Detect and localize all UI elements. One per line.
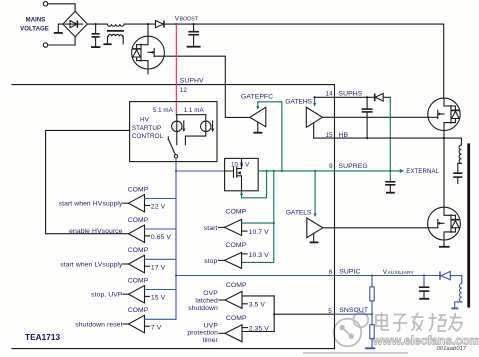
svg-text:BOOST: BOOST [180, 17, 199, 23]
wire diode to SUPREG node (teal) [389, 97, 391, 171]
svg-text:COMP: COMP [226, 282, 247, 289]
svg-text:22 V: 22 V [151, 204, 166, 211]
wire I2 bypass to switch output [185, 132, 205, 145]
watermark CJK glyph 5 [449, 313, 463, 331]
wire SUPREG feed to GATELS (teal) [314, 171, 316, 215]
svg-text:5.1 mA: 5.1 mA [153, 107, 174, 114]
svg-text:COMP: COMP [128, 307, 149, 314]
wire SUPREG sense to start/stop comps (teal) [242, 171, 274, 263]
wire primary to resonant cap [458, 163, 462, 172]
inductor transformer auxiliary winding [459, 276, 461, 302]
HV startup control box [130, 102, 217, 162]
IC boundary bottom edge [12, 348, 335, 350]
svg-text:SUPHS: SUPHS [339, 90, 363, 97]
wire SUPREG feed to GATEPFC (teal) [258, 102, 282, 171]
svg-text:start when HVsupply: start when HVsupply [59, 201, 123, 208]
wire Q2 source to HB [443, 130, 445, 138]
wire SUPREG internal rail [258, 170, 334, 172]
svg-text:17 V: 17 V [151, 264, 166, 271]
wire Q3 source to ground [443, 240, 445, 246]
transistor Q1 PFC MOSFET [132, 24, 165, 74]
wire SUPIC internal (blue) [176, 275, 335, 277]
svg-text:AUXILIARY: AUXILIARY [388, 270, 415, 276]
wire choke right leg stub [122, 36, 125, 44]
svg-text:COMP: COMP [226, 209, 247, 216]
node SUPREG-GATEPFC [281, 170, 283, 172]
wire HB [314, 137, 462, 139]
svg-text:COMP: COMP [128, 247, 149, 254]
svg-text:shutdown reset: shutdown reset [75, 321, 122, 328]
bridge rectifier [63, 11, 87, 36]
svg-text:timer: timer [202, 337, 218, 344]
resistor R1 [371, 276, 373, 287]
node R1 top [371, 274, 373, 276]
ground aux cap [419, 298, 429, 300]
svg-text:HV: HV [140, 117, 150, 124]
svg-text:12: 12 [180, 87, 188, 94]
ground SUPREG cap [386, 192, 395, 194]
ground choke [103, 43, 111, 45]
wire SUPHS feed to GATEHS (teal) [314, 97, 316, 104]
node boost cap tap [193, 23, 195, 25]
svg-text:OVP: OVP [203, 290, 218, 297]
svg-text:EXTERNAL: EXTERNAL [406, 168, 439, 175]
svg-text:GATELS: GATELS [286, 210, 312, 217]
wire HB to Q3 drain [443, 138, 445, 207]
diode aux rectifier [439, 271, 441, 279]
mains terminal top [43, 2, 47, 6]
wire I1 contact stub [176, 132, 178, 145]
svg-text:start when LVsupply: start when LVsupply [60, 261, 123, 268]
svg-text:MAINS: MAINS [26, 18, 46, 24]
svg-text:GATEPFC: GATEPFC [241, 93, 273, 100]
capacitor boost [193, 24, 195, 31]
svg-text:COMP: COMP [226, 242, 247, 249]
wire GATEHS return to HB [313, 123, 315, 139]
watermark CJK glyph 3 [412, 313, 424, 331]
inductor transformer primary [459, 145, 461, 163]
wire rail to 10.9V regulator [176, 170, 225, 172]
node rail to regulator [175, 170, 177, 172]
ground GATELS [313, 233, 315, 241]
wire rail to HS drain [164, 24, 443, 98]
svg-text:2.35 V: 2.35 V [249, 325, 270, 332]
wire choke left leg to ground [107, 36, 110, 43]
svg-text:0.65 V: 0.65 V [151, 234, 172, 241]
ground bridge [54, 32, 63, 34]
mains terminal bottom [43, 43, 47, 47]
resistor R2 [371, 314, 373, 325]
capacitor bootstrap [366, 97, 368, 108]
wire aux winding return [455, 302, 462, 308]
transistor Q2 half-bridge high side [428, 98, 460, 130]
watermark elecfans logo [334, 312, 368, 346]
wire terminal bottom to bridge [48, 37, 75, 45]
svg-text:9: 9 [329, 163, 333, 170]
svg-text:VOLTAGE: VOLTAGE [20, 27, 49, 33]
IC TEA1713 boundary top edge [12, 84, 335, 86]
svg-text:SUPHV: SUPHV [180, 77, 204, 84]
svg-text:7 V: 7 V [151, 324, 162, 331]
svg-text:start: start [204, 225, 218, 232]
svg-text:SUPREG: SUPREG [339, 163, 368, 170]
svg-text:CONTROL: CONTROL [132, 133, 164, 140]
node VBOOST tap [175, 23, 177, 25]
wire SNSOUT internal [274, 313, 334, 315]
svg-text:UVP: UVP [204, 322, 219, 329]
switch startup [167, 137, 169, 140]
line filter choke bottom winding [108, 34, 122, 36]
svg-text:10.3 V: 10.3 V [249, 252, 270, 259]
wire terminal top to bridge [48, 4, 75, 12]
wire enable HVsource to startup box [46, 130, 130, 233]
svg-text:5: 5 [328, 308, 332, 315]
driver GATEHS [306, 107, 322, 127]
diode bootstrap [374, 94, 376, 102]
svg-text:10.7 V: 10.7 V [249, 229, 270, 236]
svg-text:SNSOUT: SNSOUT [339, 307, 368, 314]
wire GATELS output to Q3 gate [323, 227, 428, 229]
wire Q1 gate to GATEPFC [154, 56, 250, 117]
capacitor aux supply [423, 276, 425, 287]
svg-text:10.9 V: 10.9 V [231, 161, 250, 168]
transistor Q3 half-bridge low side [428, 207, 461, 240]
IC boundary right edge [334, 85, 336, 349]
ground R2 [365, 347, 375, 349]
wire bridge to choke (top rail) [87, 23, 107, 25]
node SUPIC branch [175, 274, 177, 276]
regulator 10.9V box [225, 158, 259, 190]
svg-text:stop, UVP: stop, UVP [91, 292, 123, 299]
svg-text:COMP: COMP [128, 217, 149, 224]
transistor regulator pass FET [225, 158, 242, 190]
ground boost cap [187, 46, 201, 48]
svg-text:1.1 mA: 1.1 mA [184, 107, 205, 114]
ground Q3 [439, 246, 450, 248]
svg-text:14: 14 [326, 90, 334, 97]
wire SNSOUT sense vertical [273, 296, 275, 332]
svg-text:GATEHS: GATEHS [285, 99, 312, 106]
wire SUPHS [315, 96, 375, 98]
current source I2 1.1mA [205, 115, 207, 132]
svg-text:6: 6 [329, 269, 333, 276]
ground aux winding [451, 307, 458, 309]
wire VAUXILIARY external (blue) [335, 275, 441, 277]
svg-text:latched: latched [195, 297, 218, 304]
svg-text:STARTUP: STARTUP [132, 125, 161, 132]
node regulator-SUPREG [266, 170, 268, 172]
capacitor resonant [453, 172, 462, 174]
wire regulator output to SUPREG rail (teal) [242, 171, 267, 198]
svg-text:COMP: COMP [128, 186, 149, 193]
line filter choke top winding [107, 24, 124, 26]
capacitor input filter [95, 24, 97, 33]
wire SNSOUT external (blue) [335, 313, 373, 315]
svg-text:COMP: COMP [226, 315, 247, 322]
svg-text:15 V: 15 V [151, 295, 166, 302]
wire SUPREG external + arrow EXTERNAL [335, 170, 400, 172]
line filter choke core [107, 30, 124, 32]
svg-text:SUPIC: SUPIC [339, 269, 360, 276]
transformer core [467, 143, 470, 307]
driver GATELS [307, 218, 323, 238]
driver GATEPFC [250, 107, 266, 127]
diode D1 boost [156, 21, 164, 28]
svg-text:3.5 V: 3.5 V [249, 301, 266, 308]
wire HB to resonant tank [460, 138, 462, 145]
svg-text:shutdown: shutdown [188, 305, 218, 312]
watermark CJK glyph 2 [393, 315, 407, 332]
node rail-cap junction [95, 23, 97, 25]
wire choke to rail [124, 23, 156, 25]
watermark CJK glyph 1 [376, 313, 389, 331]
wire SUPHV net (magenta) [175, 24, 177, 115]
node HB half-bridge [443, 137, 445, 139]
node PFC drain [147, 23, 149, 25]
current source I1 5.1mA [176, 115, 178, 132]
wire bridge to ground [58, 24, 63, 32]
node SUPREG external [389, 170, 391, 172]
ground input cap [91, 46, 100, 48]
svg-text:TEA1713: TEA1713 [25, 333, 61, 342]
wire switch output rail (blue) [175, 158, 177, 319]
watermark underline [303, 352, 408, 354]
svg-text:protection: protection [187, 330, 218, 337]
svg-text:001aab017: 001aab017 [437, 346, 467, 352]
capacitor SUPREG decoupling [389, 171, 391, 181]
svg-text:COMP: COMP [128, 277, 149, 284]
svg-text:stop: stop [204, 258, 217, 265]
wire top bar between current sources [176, 114, 205, 116]
watermark CJK glyph 4 [429, 313, 447, 331]
wire GATEHS output to Q2 gate [322, 116, 427, 118]
node aux cap tap [423, 274, 425, 276]
ground GATEPFC [257, 122, 259, 132]
